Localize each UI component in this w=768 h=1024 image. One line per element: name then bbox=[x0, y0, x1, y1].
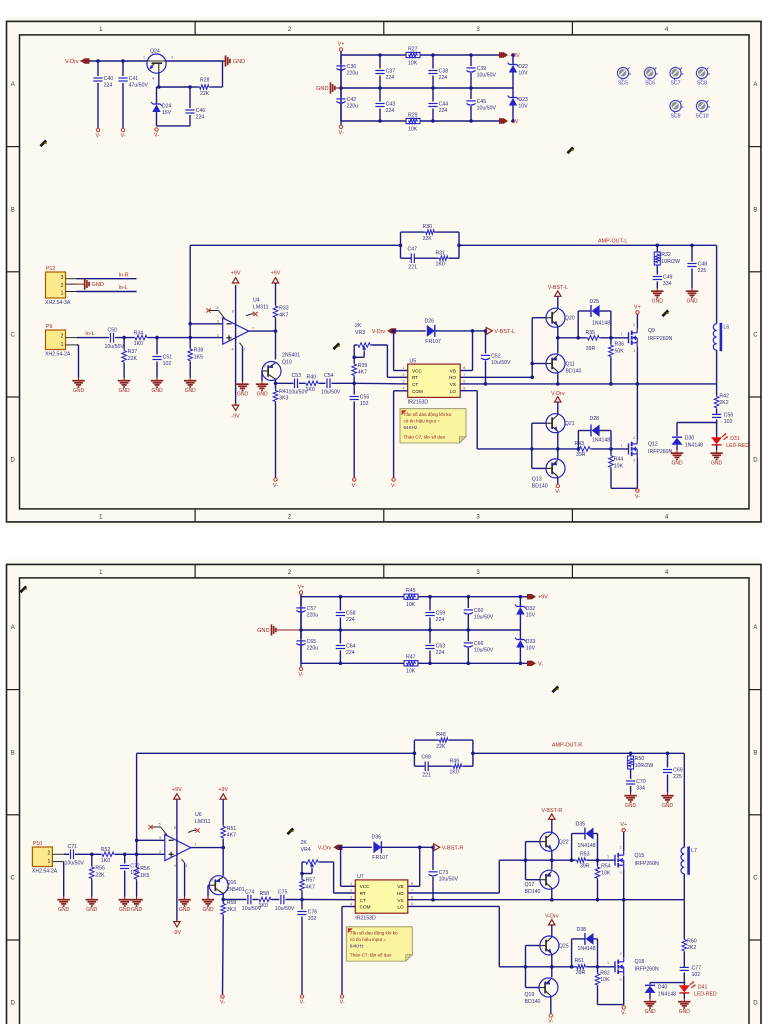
svg-text:1: 1 bbox=[607, 854, 609, 858]
capacitor C41 bbox=[118, 61, 148, 128]
resistor R32 bbox=[654, 245, 680, 274]
svg-text:FR107: FR107 bbox=[372, 855, 388, 861]
wire V-Drv to Q25 bbox=[551, 925, 553, 938]
svg-text:R60: R60 bbox=[687, 938, 697, 944]
wire Q21 emitter junction bbox=[556, 431, 560, 459]
resistor R39 bbox=[352, 363, 368, 384]
svg-text:GND: GND bbox=[679, 1009, 691, 1015]
svg-text:GND: GND bbox=[58, 907, 70, 913]
wire Q18 drain to rail bbox=[623, 900, 625, 958]
wire VR3 left + wiper loop bbox=[352, 345, 364, 363]
svg-text:1K5: 1K5 bbox=[194, 354, 203, 360]
wire HO net bbox=[460, 376, 534, 380]
port -9V (filter) bbox=[499, 118, 519, 125]
svg-text:225: 225 bbox=[698, 268, 707, 274]
svg-text:IRFP260N: IRFP260N bbox=[648, 336, 672, 342]
svg-text:GND: GND bbox=[119, 907, 131, 913]
svg-text:C50: C50 bbox=[108, 327, 118, 333]
power V- (C55) bbox=[352, 478, 357, 489]
ground GND (Q10 base) bbox=[256, 381, 268, 398]
screw SC8 bbox=[696, 67, 710, 86]
resistor R33 bbox=[273, 283, 289, 331]
svg-text:GND: GND bbox=[662, 803, 674, 809]
svg-text:1: 1 bbox=[621, 332, 623, 336]
svg-text:4: 4 bbox=[402, 386, 404, 390]
svg-text:D31: D31 bbox=[730, 436, 740, 442]
svg-text:39R: 39R bbox=[576, 970, 586, 976]
svg-text:D: D bbox=[11, 1001, 16, 1007]
port +9V (filter2) bbox=[527, 594, 548, 601]
capacitor C39 bbox=[466, 55, 496, 88]
svg-text:GND: GND bbox=[237, 392, 249, 398]
svg-text:8: 8 bbox=[463, 366, 465, 370]
svg-text:B: B bbox=[11, 750, 15, 756]
svg-text:4: 4 bbox=[232, 348, 234, 352]
svg-text:C39: C39 bbox=[477, 66, 487, 72]
svg-text:3: 3 bbox=[61, 275, 64, 281]
svg-text:2: 2 bbox=[402, 373, 404, 377]
resistor R51 bbox=[221, 799, 237, 847]
svg-text:5: 5 bbox=[463, 386, 465, 390]
svg-text:B: B bbox=[11, 207, 15, 213]
svg-text:4K7: 4K7 bbox=[279, 312, 288, 318]
svg-text:3: 3 bbox=[633, 349, 635, 353]
potentiometer VR3 bbox=[355, 323, 371, 351]
U4 pin1 to ground bbox=[232, 343, 246, 381]
wire C77 to D40 bbox=[650, 982, 685, 985]
svg-text:V-: V- bbox=[538, 661, 543, 667]
transistor Q24 bbox=[143, 49, 173, 81]
svg-text:R57: R57 bbox=[306, 878, 316, 884]
svg-text:50K: 50K bbox=[615, 349, 625, 355]
svg-text:22K: 22K bbox=[423, 236, 433, 242]
transistor Q25 bbox=[540, 936, 569, 955]
wire Q11 base bbox=[532, 363, 546, 365]
U4 pin6 stub bbox=[246, 312, 258, 316]
wire Q20 emitter junction bbox=[556, 326, 560, 353]
svg-text:GND: GND bbox=[686, 299, 698, 305]
wire AMP-OUT-L rail bbox=[459, 239, 717, 248]
svg-text:1: 1 bbox=[48, 859, 51, 865]
svg-text:2: 2 bbox=[350, 889, 352, 893]
power V- (filter) bbox=[338, 121, 343, 136]
wire Q18 source to V- bbox=[623, 976, 625, 1005]
wire net V-Drv to GND rail (Q24) bbox=[81, 59, 223, 87]
power +9V (U4) bbox=[231, 271, 241, 284]
mosfet Q18 IRFP260N bbox=[607, 952, 659, 982]
svg-text:GND: GND bbox=[256, 392, 268, 398]
svg-text:8: 8 bbox=[232, 309, 234, 313]
svg-text:D23: D23 bbox=[518, 97, 528, 103]
svg-text:10K: 10K bbox=[614, 463, 624, 469]
port V-Drv bbox=[65, 58, 89, 65]
svg-text:1N4148: 1N4148 bbox=[592, 321, 610, 327]
svg-text:Q15: Q15 bbox=[635, 853, 645, 859]
svg-text:V-: V- bbox=[120, 133, 125, 139]
svg-text:Q9: Q9 bbox=[648, 328, 655, 334]
wire V-Drv node (U7) bbox=[339, 846, 372, 887]
ground GND (C48) bbox=[686, 288, 698, 305]
capacitor C40 bbox=[93, 61, 113, 128]
wire VR3 right to U5 RT bbox=[371, 345, 407, 377]
svg-text:10u/50V: 10u/50V bbox=[491, 360, 511, 366]
svg-text:Q25: Q25 bbox=[559, 944, 569, 950]
ground GND (C49) bbox=[651, 288, 663, 305]
capacitor C43 bbox=[375, 88, 395, 121]
svg-text:2: 2 bbox=[633, 436, 635, 440]
svg-text:R37: R37 bbox=[128, 349, 138, 355]
svg-text:V-: V- bbox=[339, 1000, 344, 1006]
svg-text:Q17: Q17 bbox=[525, 882, 535, 888]
wire R52 to U6 pin2 bbox=[115, 853, 165, 857]
svg-text:SC7: SC7 bbox=[670, 81, 680, 87]
svg-text:GND: GND bbox=[644, 1009, 656, 1015]
wire Q24 emitter to zener node bbox=[157, 72, 192, 89]
U6 pin1 to ground bbox=[174, 859, 188, 896]
svg-text:R44: R44 bbox=[614, 457, 624, 463]
svg-text:5: 5 bbox=[216, 306, 218, 310]
svg-text:GND: GND bbox=[233, 59, 245, 65]
power V- (C76) bbox=[299, 995, 304, 1006]
svg-text:3: 3 bbox=[217, 319, 219, 323]
svg-text:Q24: Q24 bbox=[150, 49, 160, 55]
wire feedback to U6 pin3 bbox=[135, 753, 165, 854]
svg-text:7: 7 bbox=[411, 889, 413, 893]
wire D36 to V-BST-R bbox=[381, 846, 434, 850]
svg-text:C76: C76 bbox=[308, 910, 318, 916]
svg-text:5: 5 bbox=[411, 902, 413, 906]
svg-text:V-: V- bbox=[548, 1019, 553, 1024]
svg-text:+9V: +9V bbox=[172, 787, 182, 793]
svg-text:R33: R33 bbox=[279, 306, 289, 312]
ground GND (C51) bbox=[151, 378, 163, 395]
svg-text:10u/50V: 10u/50V bbox=[474, 648, 494, 654]
ground GND (C72) bbox=[119, 897, 131, 914]
ground GND (C70) bbox=[624, 793, 636, 810]
svg-text:D: D bbox=[753, 458, 758, 464]
svg-text:C47: C47 bbox=[408, 247, 418, 253]
svg-text:V-: V- bbox=[635, 494, 640, 500]
svg-text:V-: V- bbox=[621, 1011, 626, 1017]
svg-text:L7: L7 bbox=[691, 848, 697, 854]
svg-text:VB: VB bbox=[397, 884, 403, 889]
svg-text:1K0: 1K0 bbox=[101, 858, 110, 864]
wire LO net (sheet2) bbox=[408, 906, 552, 966]
wire feedback rail (sheet2) bbox=[137, 752, 475, 756]
svg-text:U4: U4 bbox=[253, 298, 260, 304]
svg-text:V-: V- bbox=[220, 1000, 225, 1006]
svg-text:U5: U5 bbox=[410, 358, 417, 364]
svg-text:C48: C48 bbox=[698, 262, 708, 268]
wire C75 to CT node2 bbox=[285, 898, 303, 902]
svg-text:P12: P12 bbox=[46, 266, 55, 272]
capacitor C57 bbox=[296, 597, 318, 630]
svg-text:V-: V- bbox=[299, 1000, 304, 1006]
svg-text:V+: V+ bbox=[298, 585, 305, 591]
wire +9V to U4 pin8 bbox=[235, 285, 237, 319]
svg-text:R32: R32 bbox=[661, 252, 671, 258]
power V+ (filter2) bbox=[298, 585, 305, 597]
inductor L7 bbox=[681, 753, 697, 899]
svg-text:10V: 10V bbox=[526, 613, 536, 619]
resistor R40 bbox=[299, 375, 319, 393]
wire +9V top rail (sheet2) bbox=[301, 595, 534, 630]
svg-text:22K: 22K bbox=[436, 744, 446, 750]
capacitor C59 bbox=[425, 597, 445, 630]
svg-text:R59: R59 bbox=[227, 900, 237, 906]
capacitor C49 bbox=[653, 275, 673, 288]
ground GND (D40) bbox=[644, 999, 656, 1016]
power +9V (R33) bbox=[271, 271, 281, 284]
ground GND (R56) bbox=[130, 897, 142, 914]
wire Q12 source to V- bbox=[636, 458, 638, 488]
resistor R43 bbox=[558, 441, 629, 458]
power V-BST-L (Q20) bbox=[548, 285, 568, 296]
ground GND (C69) bbox=[661, 793, 673, 810]
wire COM to V- (U7) bbox=[342, 907, 355, 995]
resistor R54 bbox=[595, 860, 611, 900]
svg-text:2: 2 bbox=[159, 850, 161, 854]
wire CT rail to U5 bbox=[354, 382, 408, 385]
svg-text:R28: R28 bbox=[200, 78, 210, 84]
svg-text:V-: V- bbox=[154, 133, 159, 139]
transistor Q13 BD140 bbox=[532, 459, 565, 490]
capacitor C74 bbox=[223, 889, 262, 912]
svg-text:C41: C41 bbox=[129, 76, 139, 82]
svg-text:3: 3 bbox=[620, 871, 622, 875]
svg-text:D: D bbox=[11, 458, 16, 464]
wire Q15 drain to V+ bbox=[623, 832, 625, 851]
svg-text:B: B bbox=[753, 207, 757, 213]
ground GND (D41) bbox=[678, 999, 690, 1016]
svg-text:6: 6 bbox=[463, 380, 465, 384]
svg-text:GND: GND bbox=[652, 299, 664, 305]
diode D26 FR107 bbox=[425, 318, 441, 345]
screw SC6 bbox=[644, 67, 658, 86]
svg-text:2: 2 bbox=[620, 952, 622, 956]
svg-text:1: 1 bbox=[402, 366, 404, 370]
resistor R38 bbox=[188, 338, 204, 378]
svg-text:+9V: +9V bbox=[538, 595, 548, 601]
svg-text:C58: C58 bbox=[346, 611, 356, 617]
svg-text:R41: R41 bbox=[279, 389, 289, 395]
power V- (C40) bbox=[95, 128, 100, 139]
no-ERC marker near VR3 bbox=[333, 343, 340, 350]
svg-text:GND: GND bbox=[711, 461, 723, 467]
svg-text:220u: 220u bbox=[347, 104, 359, 110]
svg-text:R36: R36 bbox=[615, 342, 625, 348]
ground GND (P9) bbox=[72, 378, 84, 395]
transistor Q17 BD140 bbox=[525, 870, 559, 895]
svg-text:3K3: 3K3 bbox=[227, 907, 236, 913]
svg-text:C: C bbox=[11, 333, 16, 339]
capacitor C52 bbox=[481, 331, 511, 386]
svg-text:C44: C44 bbox=[439, 102, 449, 108]
svg-text:2N5401: 2N5401 bbox=[282, 353, 300, 359]
port V- (filter2) bbox=[527, 661, 543, 668]
capacitor C38 bbox=[428, 55, 448, 88]
U6 pin6 stub bbox=[188, 828, 200, 832]
svg-text:D28: D28 bbox=[590, 416, 600, 422]
svg-text:2: 2 bbox=[61, 333, 64, 339]
svg-text:3: 3 bbox=[159, 836, 161, 840]
wire Q19 emitter down bbox=[550, 996, 552, 1014]
svg-text:6: 6 bbox=[411, 895, 413, 899]
resistor R56 bbox=[134, 854, 150, 896]
wire Q20 base column bbox=[530, 318, 546, 378]
resistor R49 bbox=[428, 759, 473, 776]
svg-text:GND: GND bbox=[86, 907, 98, 913]
svg-text:C49: C49 bbox=[663, 275, 673, 281]
svg-text:R43: R43 bbox=[575, 441, 585, 447]
svg-text:C45: C45 bbox=[477, 99, 487, 105]
power V-Drv (Q21) bbox=[551, 391, 565, 402]
svg-text:2: 2 bbox=[620, 845, 622, 849]
svg-text:224: 224 bbox=[439, 75, 448, 81]
wire Q16 base to ground bbox=[208, 885, 209, 896]
svg-text:220u: 220u bbox=[347, 71, 359, 77]
svg-text:10K: 10K bbox=[406, 602, 416, 608]
no-ERC marker sheet2 top-left bbox=[20, 586, 27, 593]
ground GND (R55) bbox=[86, 897, 98, 914]
svg-text:C43: C43 bbox=[386, 102, 396, 108]
svg-text:V-: V- bbox=[391, 483, 396, 489]
resistor R53 bbox=[552, 852, 615, 870]
svg-text:LM311: LM311 bbox=[195, 819, 211, 825]
wire CT rail to U7 bbox=[302, 899, 355, 901]
capacitor C66 bbox=[464, 630, 494, 663]
transistor Q10 2N5401 bbox=[262, 331, 300, 380]
svg-text:C65: C65 bbox=[307, 639, 317, 645]
svg-text:2: 2 bbox=[48, 850, 51, 856]
svg-text:R61: R61 bbox=[575, 958, 585, 964]
power -9V (U6) bbox=[173, 920, 182, 936]
svg-text:1N4148: 1N4148 bbox=[578, 946, 596, 952]
power V-BST-R (Q22) bbox=[541, 808, 562, 819]
svg-text:47u/50V: 47u/50V bbox=[129, 83, 149, 89]
U4 pin5 stub bbox=[206, 308, 225, 319]
svg-text:22K: 22K bbox=[200, 91, 210, 97]
resistor R55 bbox=[90, 854, 106, 896]
svg-text:R35: R35 bbox=[586, 330, 596, 336]
wire Q15 source to rail bbox=[623, 869, 625, 900]
svg-text:7: 7 bbox=[194, 843, 196, 847]
svg-text:IRFP260N: IRFP260N bbox=[635, 967, 659, 973]
svg-text:C66: C66 bbox=[474, 641, 484, 647]
svg-text:Tháo C7, tần số dao: Tháo C7, tần số dao bbox=[404, 435, 446, 440]
svg-text:D35: D35 bbox=[576, 822, 586, 828]
svg-text:10K: 10K bbox=[408, 126, 418, 132]
mosfet Q9 IRFP260N bbox=[621, 323, 673, 353]
svg-text:D33: D33 bbox=[526, 639, 536, 645]
capacitor C70 bbox=[626, 779, 646, 792]
svg-text:102: 102 bbox=[692, 972, 701, 978]
svg-text:C63: C63 bbox=[436, 644, 446, 650]
svg-text:+9V: +9V bbox=[231, 271, 241, 277]
transistor Q11 BD140 bbox=[546, 354, 581, 375]
svg-text:64KHz: 64KHz bbox=[350, 943, 364, 948]
svg-text:10K: 10K bbox=[408, 60, 418, 66]
svg-text:2: 2 bbox=[264, 365, 266, 369]
svg-text:2K2: 2K2 bbox=[719, 400, 728, 406]
power V- (Q12) bbox=[635, 489, 640, 500]
diode D36 FR107 bbox=[372, 835, 388, 862]
capacitor C47 bbox=[401, 247, 418, 271]
svg-text:39R: 39R bbox=[580, 863, 590, 869]
svg-text:RT: RT bbox=[360, 891, 366, 896]
wire -9V bottom rail (sheet2) bbox=[301, 630, 534, 665]
connector P9 bbox=[45, 324, 77, 358]
power V- (COM) bbox=[391, 478, 396, 489]
svg-text:Tần số dao động khi ko: Tần số dao động khi ko bbox=[350, 930, 398, 935]
zener D23 bbox=[508, 88, 529, 121]
svg-text:VR3: VR3 bbox=[355, 330, 365, 336]
wire U6 pin8 through to pin4 bbox=[176, 835, 178, 921]
svg-text:4K7: 4K7 bbox=[358, 370, 367, 376]
svg-text:C36: C36 bbox=[347, 64, 357, 70]
svg-text:8: 8 bbox=[411, 882, 413, 886]
port GND (filter) bbox=[316, 82, 341, 93]
svg-text:R45: R45 bbox=[406, 588, 416, 594]
svg-text:C56: C56 bbox=[724, 413, 734, 419]
svg-text:R53: R53 bbox=[580, 852, 590, 858]
wire Q9 drain to V+ bbox=[636, 314, 638, 329]
wire net In-R bbox=[77, 272, 137, 278]
svg-text:C46: C46 bbox=[196, 108, 206, 114]
svg-text:R42: R42 bbox=[719, 393, 729, 399]
svg-text:HO: HO bbox=[397, 891, 404, 896]
svg-text:B: B bbox=[753, 750, 757, 756]
svg-text:10u/50V: 10u/50V bbox=[321, 390, 341, 396]
svg-text:2N5401: 2N5401 bbox=[227, 887, 245, 893]
svg-text:C42: C42 bbox=[347, 97, 357, 103]
capacitor C53 bbox=[276, 373, 309, 396]
note box (sheet2) bbox=[346, 927, 412, 961]
svg-text:102: 102 bbox=[163, 361, 172, 367]
wire P9 pin1 to GND bbox=[77, 345, 79, 378]
svg-text:+9V: +9V bbox=[218, 787, 228, 793]
svg-text:GND: GND bbox=[73, 388, 85, 394]
svg-text:D38: D38 bbox=[577, 927, 587, 933]
svg-text:3: 3 bbox=[402, 380, 404, 384]
svg-text:D25: D25 bbox=[590, 299, 600, 305]
svg-text:10u/50V: 10u/50V bbox=[477, 73, 497, 79]
ground GND (D30) bbox=[671, 450, 683, 467]
svg-text:C71: C71 bbox=[68, 844, 78, 850]
mosfet Q15 IRFP260N bbox=[607, 845, 659, 875]
resistor R57 bbox=[300, 878, 316, 900]
wire Q9 source to rail bbox=[636, 347, 638, 384]
svg-text:R52: R52 bbox=[101, 847, 111, 853]
mosfet Q12 IRFP260N bbox=[621, 436, 673, 463]
svg-text:15V: 15V bbox=[162, 110, 172, 116]
svg-text:2: 2 bbox=[633, 323, 635, 327]
svg-text:R31: R31 bbox=[436, 251, 446, 257]
wire R34 to U4 pin2 bbox=[148, 336, 223, 340]
svg-text:221: 221 bbox=[422, 773, 431, 779]
svg-text:LM311: LM311 bbox=[253, 305, 269, 311]
svg-text:8: 8 bbox=[174, 826, 176, 830]
svg-text:C: C bbox=[753, 876, 758, 882]
transistor Q21 bbox=[546, 414, 575, 433]
svg-text:U6: U6 bbox=[195, 812, 202, 818]
svg-text:VCC: VCC bbox=[412, 368, 423, 373]
port V-BST-R bbox=[434, 844, 464, 852]
svg-text:334: 334 bbox=[663, 281, 672, 287]
capacitor C50 bbox=[105, 327, 125, 350]
capacitor C54 bbox=[319, 373, 341, 396]
svg-text:C69: C69 bbox=[673, 768, 683, 774]
